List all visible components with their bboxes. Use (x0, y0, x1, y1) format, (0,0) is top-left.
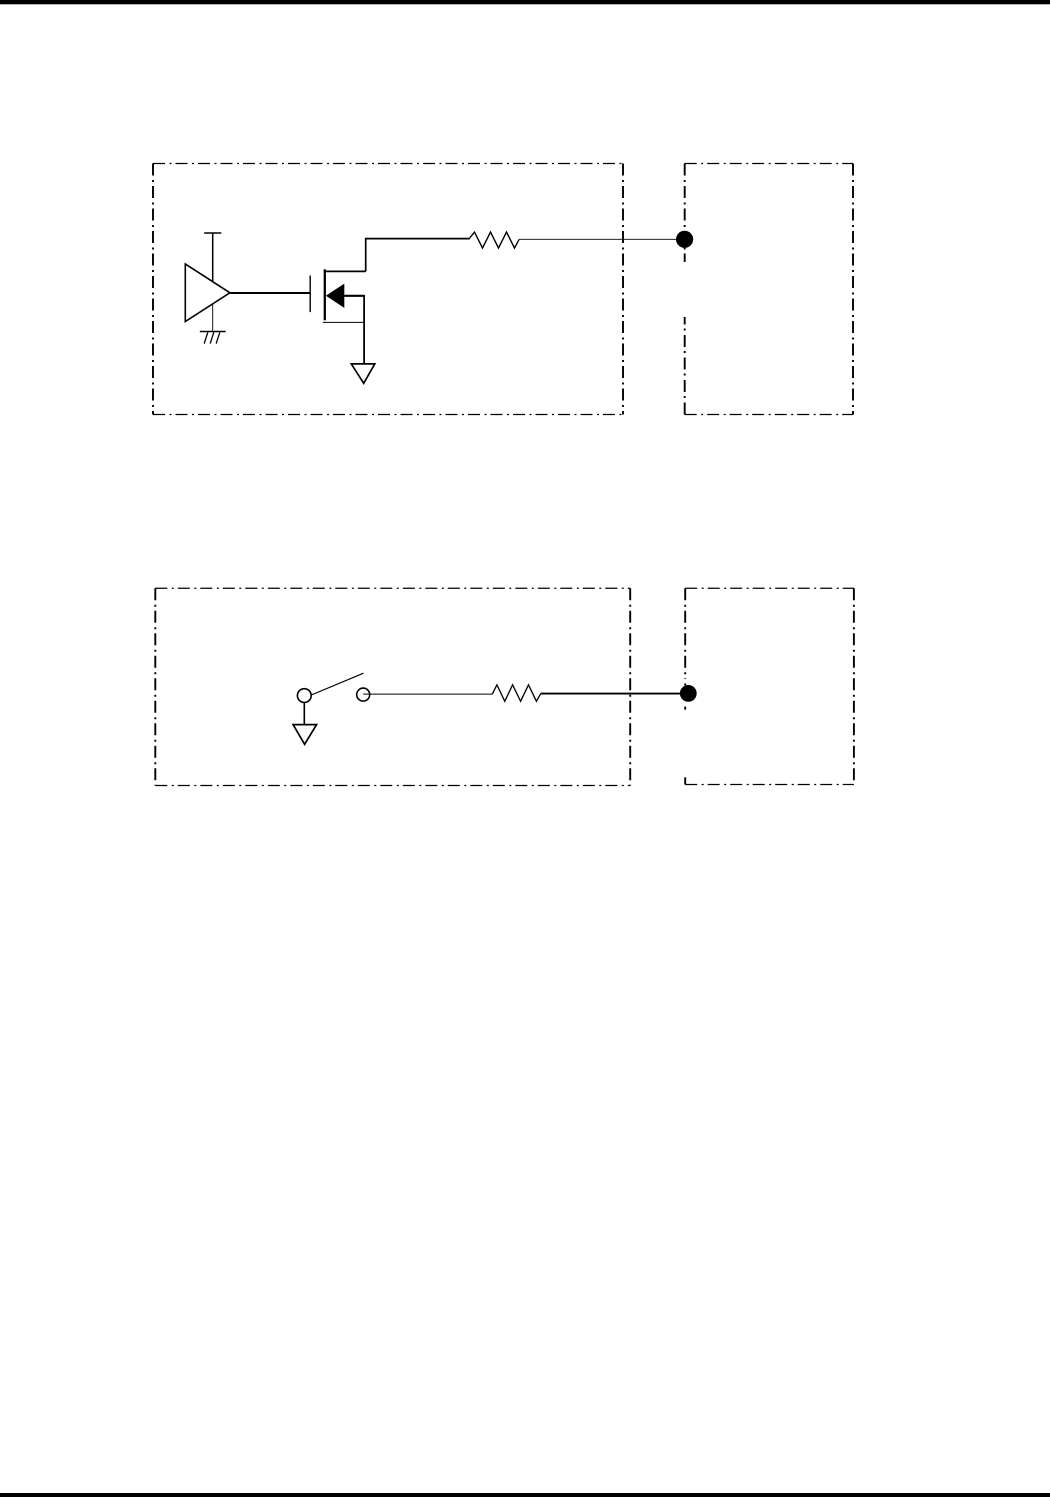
dashed enclosure box: connector (lower right) (685, 588, 854, 784)
wire: S1 to ground (303, 703, 305, 725)
power rail (T bar) (204, 233, 221, 281)
wire: S1 to R2 (363, 693, 492, 695)
ground (S1) (293, 725, 317, 745)
transistor Q1 (MOSFET) (310, 269, 366, 322)
wire: Q1 source to ground (363, 295, 365, 364)
wire: buffer to chassis ground (212, 304, 214, 332)
buffer U1 (triangle) (185, 264, 230, 322)
resistor R2 (492, 685, 541, 702)
chassis ground (buffer) (200, 332, 226, 344)
node: connector pin junction (circuit 1) (676, 231, 693, 248)
wire: R2 to connector pin (541, 693, 688, 695)
node: connector pin junction (circuit 2) (680, 685, 697, 702)
wire: R1 to connector pin (519, 238, 684, 240)
switch S1 (297, 673, 369, 702)
wire: buffer output to Q1 gate (230, 292, 310, 294)
wire: Q1 drain (365, 239, 469, 272)
ground (Q1 source) (351, 364, 375, 383)
dashed enclosure box: switch circuit (lower left) (155, 588, 630, 785)
dashed enclosure box: connector (upper right) (685, 164, 853, 415)
resistor R1 (469, 232, 519, 248)
dashed enclosure box: driver circuit (upper left) (153, 164, 623, 415)
